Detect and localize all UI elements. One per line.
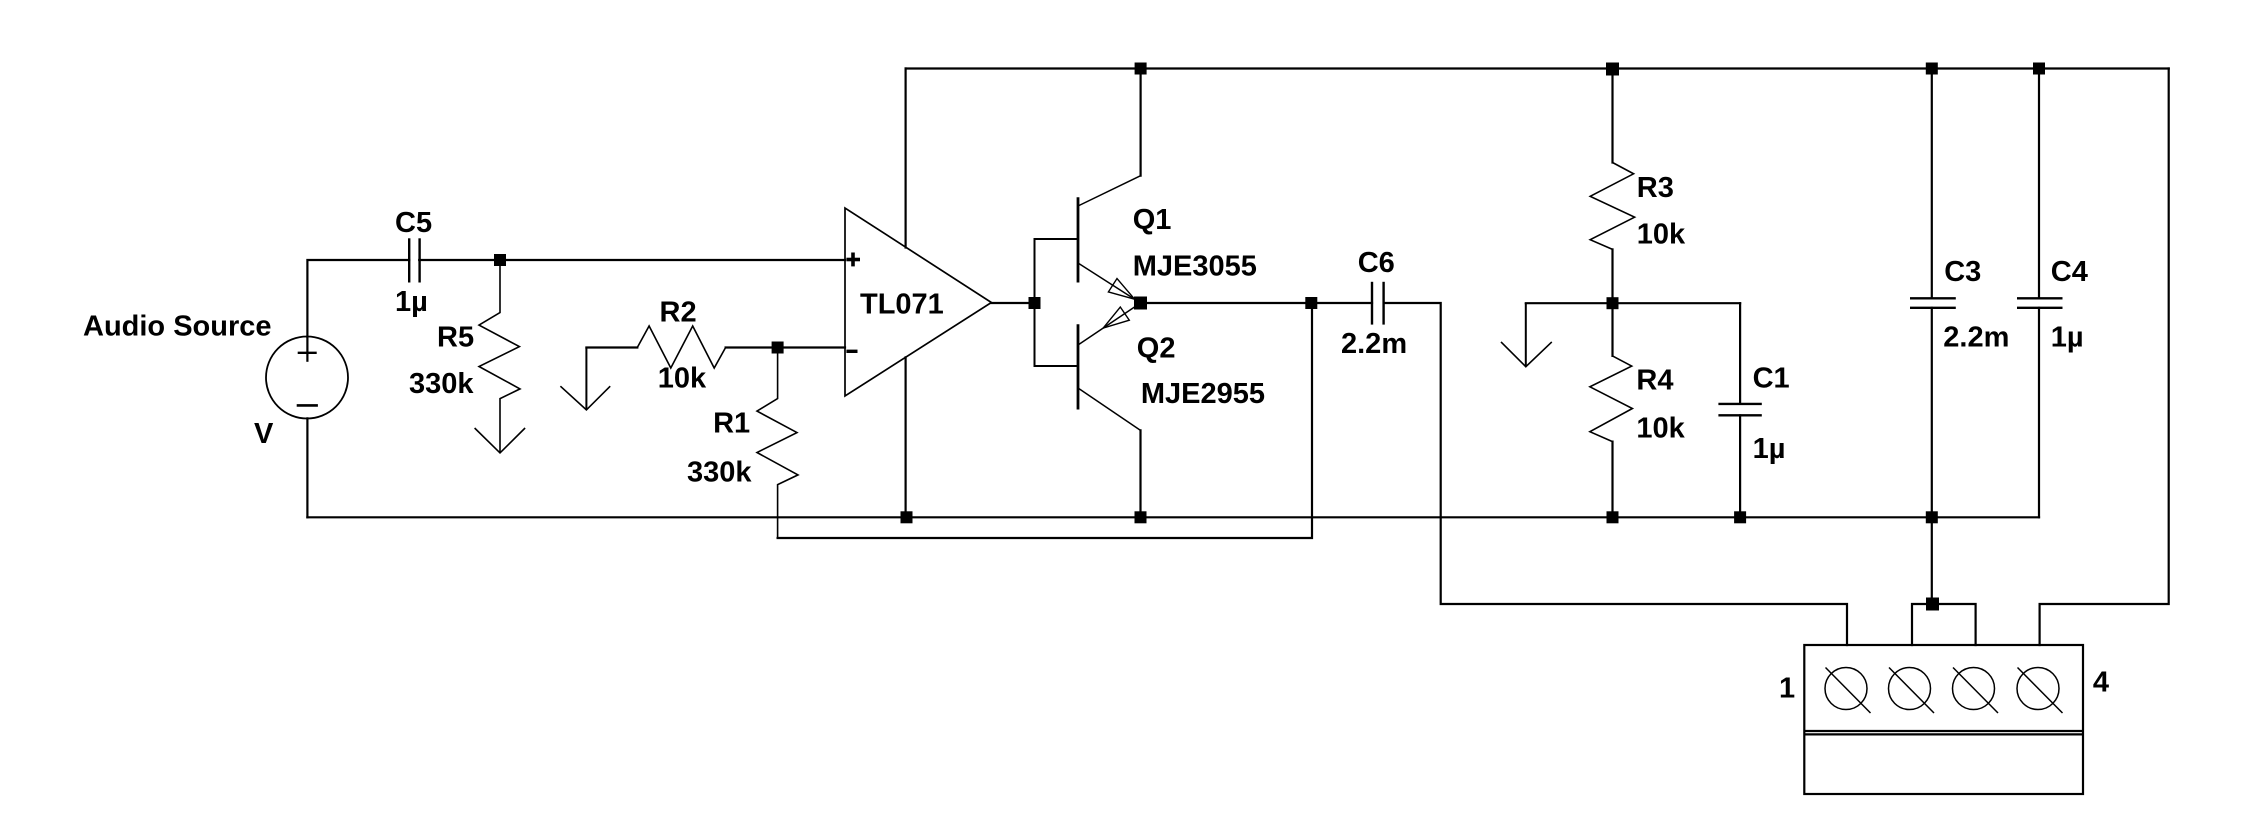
ground arrow G2 left of R2 <box>560 348 610 410</box>
node ground rail op-amp <box>901 511 913 523</box>
svg-text:R5: R5 <box>437 321 474 353</box>
svg-text:1: 1 <box>1779 673 1795 705</box>
op-amp U1 TL071 triangle <box>845 208 991 396</box>
node R3 R4 junction <box>1607 297 1619 309</box>
capacitor C4 plates <box>2017 298 2063 308</box>
capacitor C6 plates <box>1372 282 1384 325</box>
svg-text:C4: C4 <box>2051 256 2088 288</box>
node terminal 2-3 junction <box>1926 598 1939 611</box>
svg-text:R2: R2 <box>660 297 697 329</box>
wire op-amp output to bases node <box>991 302 1034 304</box>
svg-text:R3: R3 <box>1637 172 1674 204</box>
wire ground rail extension to C4 <box>1932 516 2039 518</box>
node top rail Q1 collector <box>1135 63 1147 75</box>
svg-text:TL071: TL071 <box>860 288 944 320</box>
resistor R1 330k <box>757 348 798 539</box>
node C5 R5 junction <box>494 254 506 266</box>
svg-text:Audio Source: Audio Source <box>83 311 272 343</box>
terminal screw 1 <box>1825 668 1871 714</box>
node ground rail C1 <box>1734 511 1746 523</box>
resistor R2 10k <box>637 326 725 368</box>
wire ground arrow G2 to R2 <box>586 346 637 348</box>
node ground rail Q2 <box>1135 511 1147 523</box>
node ground rail C3 <box>1926 511 1938 523</box>
wire C1 bottom <box>1739 415 1741 517</box>
wire C5 to op-amp plus input <box>419 259 845 261</box>
capacitor C3 plates <box>1910 298 1956 308</box>
terminal block J1 body <box>1804 645 2083 794</box>
wire R2 to inverting input node <box>726 346 845 348</box>
terminal screw 4 <box>2017 668 2063 714</box>
resistor R4 10k <box>1590 356 1633 442</box>
wire source bottom to ground rail <box>306 418 308 517</box>
node op-amp output bases <box>1029 297 1041 309</box>
svg-text:1µ: 1µ <box>1753 433 1786 465</box>
wire terminal 2-3 jumper <box>1912 604 1976 645</box>
svg-text:MJE3055: MJE3055 <box>1133 251 1257 283</box>
wire Q2 collector drop <box>1139 430 1141 517</box>
voltage source V (Audio Source) <box>266 337 348 419</box>
svg-text:10k: 10k <box>1637 219 1686 251</box>
wire C6 right side <box>1384 303 1847 645</box>
terminal screw 3 <box>1953 668 1999 714</box>
svg-text:Q1: Q1 <box>1133 204 1172 236</box>
svg-text:C1: C1 <box>1753 363 1790 395</box>
svg-text:10k: 10k <box>1636 413 1685 445</box>
node top rail C4 <box>2033 63 2045 75</box>
wire top positive rail <box>906 67 2169 69</box>
svg-text:1µ: 1µ <box>2051 322 2084 354</box>
svg-text:2.2m: 2.2m <box>1943 322 2009 354</box>
base coupling bracket of Q1 Q2 <box>1035 239 1079 366</box>
node emitters output <box>1134 297 1147 310</box>
svg-text:R4: R4 <box>1636 365 1673 397</box>
capacitor C1 plates <box>1718 404 1761 415</box>
svg-text:R1: R1 <box>713 408 750 440</box>
op-amp plus input marker <box>846 253 860 267</box>
transistor Q2 MJE2955 (PNP) <box>1078 303 1141 430</box>
svg-text:V: V <box>254 418 274 450</box>
svg-text:MJE2955: MJE2955 <box>1141 378 1265 410</box>
svg-text:C6: C6 <box>1358 247 1395 279</box>
wire op-amp V- drop to bottom rail <box>904 357 906 517</box>
svg-text:2.2m: 2.2m <box>1341 328 1407 360</box>
wire terminal 4 to top rail riser <box>2040 69 2169 646</box>
resistor R5 330k <box>479 260 520 452</box>
node inverting input junction <box>772 342 784 354</box>
svg-text:C5: C5 <box>395 207 432 239</box>
wire emitters node to C6 <box>1141 302 1373 304</box>
svg-text:10k: 10k <box>658 362 707 394</box>
wire R3 top from rail <box>1611 69 1613 163</box>
wire C4 bottom <box>2038 308 2040 518</box>
op-amp minus input marker <box>846 350 857 353</box>
wire R4 bottom <box>1611 442 1613 518</box>
node top rail C3 <box>1926 63 1938 75</box>
wire C3 bottom through rail to terminal node <box>1931 308 1933 604</box>
node top rail R3 <box>1606 63 1619 76</box>
resistor R3 10k <box>1590 163 1634 250</box>
wire feedback R1 bottom to output node <box>778 303 1312 538</box>
wire source top to C5 row <box>307 260 409 337</box>
capacitor C5 plates <box>409 238 419 282</box>
wire bottom ground rail <box>307 516 1931 518</box>
ground arrow G1 below R5 <box>475 428 525 453</box>
wire C3 top from rail <box>1931 69 1933 299</box>
node output to C6 feedback <box>1305 297 1317 309</box>
svg-text:330k: 330k <box>687 457 752 489</box>
wire C4 top from rail <box>2038 69 2040 299</box>
ground arrow G3 at R3 R4 junction <box>1501 303 1552 367</box>
wire ground arrow G3 to C1 row <box>1526 302 1740 304</box>
node ground rail R4 <box>1607 511 1619 523</box>
svg-text:4: 4 <box>2093 666 2109 698</box>
svg-text:C3: C3 <box>1944 256 1981 288</box>
transistor Q1 MJE3055 (NPN) <box>1078 176 1141 303</box>
svg-text:1µ: 1µ <box>395 286 428 318</box>
svg-text:330k: 330k <box>409 368 474 400</box>
wire op-amp V+ riser <box>904 69 906 248</box>
svg-text:Q2: Q2 <box>1137 333 1176 365</box>
wire R4 top <box>1611 303 1613 356</box>
wire R3 bottom to junction <box>1611 249 1613 303</box>
terminal screw 2 <box>1889 668 1935 714</box>
wire C1 top <box>1739 303 1741 404</box>
wire Q1 collector riser <box>1139 69 1141 176</box>
